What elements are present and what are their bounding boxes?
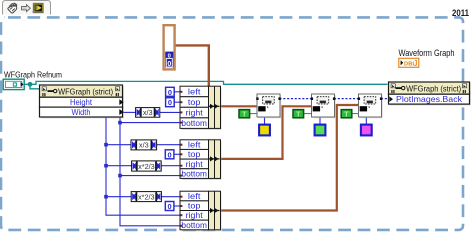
svg-text:PlotImages.Back: PlotImages.Back — [396, 94, 463, 104]
svg-text:left: left — [188, 192, 201, 201]
boolean TRUE constant T2 — [293, 110, 312, 119]
color box constant magenta — [361, 125, 372, 136]
svg-text:top: top — [188, 150, 201, 159]
numeric constant stubs — [174, 91, 181, 93]
svg-text:T: T — [344, 110, 349, 119]
wire width branch to x*2/3 2 — [106, 196, 131, 198]
wire x/3 2 out to bundle2 left — [157, 144, 180, 146]
svg-text:2011: 2011 — [452, 8, 470, 19]
svg-text:bottom: bottom — [181, 119, 207, 128]
svg-text:T: T — [296, 110, 301, 119]
indicator terminal DBL — [399, 58, 419, 67]
picture wire node1-node2 — [280, 98, 312, 100]
wire x*2/3 2 out to bundle3 left — [161, 196, 179, 198]
Draw Rect VI D3 — [358, 94, 383, 118]
svg-text:Waveform Graph: Waveform Graph — [399, 48, 455, 58]
numeric constant 0 (bundle2 top) — [165, 150, 174, 159]
cluster wire bundle3 to draw3 — [220, 105, 359, 211]
LabVIEW run icon — [33, 3, 43, 13]
numeric constant 0 (bundle1 top) — [166, 98, 175, 107]
wire height rail vertical — [120, 114, 180, 226]
picture wire node3-property — [381, 98, 389, 100]
svg-text:WFGraph (strict): WFGraph (strict) — [58, 86, 113, 96]
color box constant green — [315, 125, 326, 136]
property node U2 WFGraph (strict) PlotImages.Back — [389, 82, 471, 105]
bundle-by-name B2 — [180, 140, 222, 180]
junction dots blue — [104, 143, 108, 147]
refnum wire — [24, 81, 388, 84]
wire width rail vertical — [106, 114, 180, 215]
svg-text:Width: Width — [72, 107, 91, 117]
color box constant yellow — [259, 125, 270, 136]
cluster wire array to bundle1 — [176, 45, 209, 86]
svg-text:right: right — [186, 211, 204, 220]
hand tool icon — [8, 3, 17, 13]
Draw Rect VI D1 — [256, 94, 281, 118]
svg-text:0: 0 — [168, 202, 172, 211]
svg-text:x*2/3: x*2/3 — [138, 162, 155, 171]
svg-text:right: right — [186, 108, 204, 117]
boolean TRUE constant T1 — [239, 110, 258, 119]
svg-text:WFGraph (strict): WFGraph (strict) — [406, 83, 461, 93]
svg-text:x/3: x/3 — [143, 108, 153, 117]
arrow tool icon — [22, 5, 31, 12]
toolbar tab — [3, 1, 51, 15]
property node U1 WFGraph (strict) Height/Width — [40, 85, 124, 118]
expression node E4 x*2/3 — [131, 192, 161, 202]
refnum junction dot — [28, 82, 33, 87]
wire x/3 to bundle1 right — [160, 111, 181, 113]
svg-text:WFGraph Refnum: WFGraph Refnum — [4, 69, 62, 79]
picture wire node2-node3 — [334, 98, 358, 100]
array constant shell — [164, 25, 175, 69]
numeric constant 0 (bundle3 top) — [165, 202, 174, 211]
svg-text:left: left — [188, 141, 201, 150]
svg-text:0: 0 — [168, 88, 172, 97]
expression node E1 x/3 — [136, 108, 160, 118]
svg-text:bottom: bottom — [181, 169, 207, 178]
expression node E2 x/3 — [131, 140, 157, 150]
cluster wire bundle2 to draw2 — [220, 106, 312, 159]
wire height to bundle1 bottom — [120, 122, 180, 124]
wire width branch to x*2/3 — [106, 165, 132, 167]
svg-text:x*2/3: x*2/3 — [138, 192, 155, 201]
wire x*2/3 out to bundle2 right — [161, 165, 180, 167]
wire Width to x/3 — [121, 111, 136, 113]
cluster wire bundle1 to draw1 — [220, 105, 258, 107]
refnum wire branch to property node — [30, 84, 40, 89]
control terminal WFGraph Refnum — [3, 79, 24, 89]
color box stubs — [264, 117, 266, 126]
svg-text:top: top — [188, 202, 201, 211]
svg-text:T: T — [242, 110, 247, 119]
expression node E3 x*2/3 — [132, 161, 162, 171]
svg-text:0: 0 — [167, 61, 171, 68]
svg-text:0: 0 — [168, 150, 172, 159]
numeric constant 0 (bundle1 left) — [166, 87, 175, 96]
svg-text:DBL: DBL — [404, 61, 416, 67]
boolean TRUE constant T3 — [341, 110, 359, 119]
svg-text:x/3: x/3 — [139, 141, 149, 150]
wire width branch to x/3 2 — [106, 144, 131, 146]
Draw Rect VI D2 — [311, 94, 336, 118]
svg-text:0: 0 — [168, 98, 172, 107]
bundle-by-name B3 — [180, 191, 222, 231]
array index display — [165, 52, 173, 68]
svg-text:left: left — [188, 87, 201, 96]
svg-text:right: right — [186, 160, 204, 169]
svg-text:bottom: bottom — [181, 221, 207, 230]
wire height branch to bundle2 bottom — [120, 175, 180, 177]
bundle-by-name B1 — [180, 86, 222, 130]
svg-text:top: top — [188, 98, 201, 107]
svg-text:Height: Height — [70, 97, 93, 107]
